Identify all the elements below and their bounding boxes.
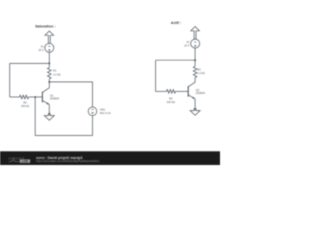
svg-text:1.2 kΩ: 1.2 kΩ	[197, 71, 205, 75]
svg-text:Actif :: Actif :	[171, 21, 181, 25]
wire up to VM1	[92, 116, 94, 136]
resistor R3	[194, 60, 196, 66]
voltmeter VM1	[88, 107, 97, 116]
node junction top-left	[48, 62, 50, 64]
svg-text:100 kΩ: 100 kΩ	[167, 100, 175, 104]
svg-text:V1: V1	[41, 45, 45, 49]
svg-text:http://circuitlab.com/c6kk3rd5: http://circuitlab.com/c6kk3rd5g7lpd5qzw2…	[36, 159, 100, 163]
CircuitLab logo text LAB	[20, 159, 30, 162]
ground left	[44, 114, 54, 121]
CircuitLab logo waveform	[9, 160, 20, 161]
svg-text:10 V: 10 V	[184, 43, 190, 47]
ground right	[190, 109, 200, 116]
schematic canvas	[0, 0, 220, 165]
svg-text:R3: R3	[197, 67, 201, 71]
power node arrow right (+V)	[191, 27, 200, 40]
svg-text:2N3904: 2N3904	[196, 91, 206, 95]
svg-text:VM1: VM1	[100, 108, 106, 112]
transistor Q2	[187, 86, 189, 97]
wire collector vertical	[48, 82, 50, 88]
svg-text:2N3904: 2N3904	[50, 97, 60, 101]
wire top horizontal right	[156, 59, 196, 61]
svg-text:V2: V2	[186, 40, 190, 44]
svg-text:R2: R2	[23, 101, 27, 105]
node junction top-right	[194, 59, 196, 61]
wire to R4 left lead	[156, 90, 167, 92]
wire right-left vertical to R4	[155, 60, 157, 91]
svg-text:LAB: LAB	[22, 159, 28, 163]
node junction base tap	[34, 96, 36, 98]
transistor Q1	[41, 92, 43, 103]
svg-text:601.5 mV: 601.5 mV	[100, 111, 111, 115]
power node arrow left (+V)	[45, 31, 54, 43]
svg-text:R1: R1	[53, 69, 57, 73]
resistor R1	[48, 63, 50, 67]
wire emitter down	[48, 105, 50, 116]
svg-text:Saturation :: Saturation :	[35, 25, 56, 29]
wire left vertical to R2	[9, 63, 11, 97]
wire VM1 top to collector node	[49, 82, 92, 107]
node junction collector	[48, 81, 50, 83]
wire to R2 left lead	[10, 96, 20, 98]
resistor R2	[20, 95, 29, 99]
voltage source V2	[191, 39, 200, 48]
wire R4 to Q2 base	[176, 90, 189, 92]
svg-text:1.2 kΩ: 1.2 kΩ	[53, 73, 61, 77]
svg-text:Q2: Q2	[196, 88, 200, 92]
svg-text:Q1: Q1	[50, 93, 54, 97]
voltage source V1	[45, 43, 54, 52]
footer bar	[0, 151, 220, 165]
wire base tap down	[34, 97, 36, 136]
resistor R4	[167, 90, 176, 94]
wire bottom horizontal	[35, 135, 92, 137]
wire top horizontal left	[10, 62, 50, 64]
wire V1 bottom to top junction	[48, 52, 50, 63]
svg-text:R4: R4	[169, 97, 173, 101]
wire R2 to Q1 base	[29, 96, 43, 98]
wire V2 bottom to junction	[194, 48, 196, 60]
wire emitter down right	[194, 99, 196, 110]
svg-text:10 V: 10 V	[38, 48, 44, 52]
svg-text:100 kΩ: 100 kΩ	[21, 104, 29, 108]
